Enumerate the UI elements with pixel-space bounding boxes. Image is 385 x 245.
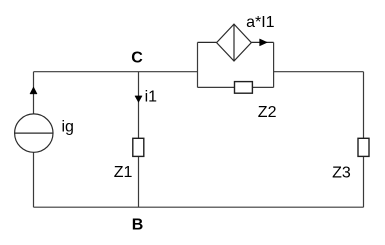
svg-text:Z1: Z1 — [114, 164, 133, 181]
wire right vertical — [363, 72, 365, 208]
wire parallel-block top branch right segment — [251, 41, 273, 43]
impedance Z1 (rectangle) — [133, 138, 144, 156]
wire bottom horizontal (node B run) — [34, 206, 364, 208]
current source ig (circle symbol) — [15, 114, 53, 152]
svg-text:Z2: Z2 — [258, 104, 277, 121]
wire parallel-block top branch — [198, 41, 217, 43]
svg-text:Z3: Z3 — [332, 165, 351, 182]
wire parallel-block bottom branch (Z2 branch) — [198, 86, 274, 88]
svg-text:B: B — [132, 217, 144, 234]
impedance Z2 (rectangle, horizontal) — [235, 82, 253, 94]
arrow up (ig current direction) — [30, 87, 37, 94]
svg-text:ig: ig — [62, 119, 74, 136]
svg-text:i1: i1 — [145, 89, 158, 106]
impedance Z3 (rectangle) — [358, 138, 369, 156]
wire parallel-block left vertical — [197, 42, 199, 87]
wire left vertical — [33, 72, 35, 208]
arrow right (dependent source direction) — [260, 39, 268, 46]
dependent source a*I1 (diamond symbol) — [217, 24, 252, 61]
wire top-right horizontal — [274, 71, 364, 73]
svg-text:C: C — [131, 50, 143, 67]
arrow down (i1 current direction) — [135, 96, 142, 102]
wire top-left horizontal (node C run) — [34, 71, 198, 73]
wire parallel-block right vertical — [273, 42, 275, 87]
wire middle vertical (C to B branch) — [138, 72, 140, 208]
svg-text:a*I1: a*I1 — [246, 14, 275, 31]
